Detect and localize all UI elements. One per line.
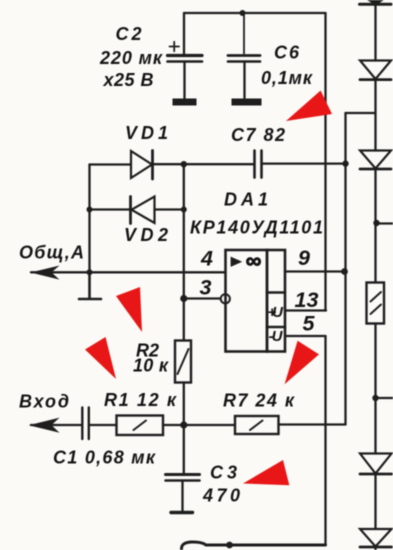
capacitor C7	[255, 151, 262, 178]
wire C6 bottom lead	[243, 63, 245, 99]
wire right diode column top	[374, 4, 376, 61]
node VD2-bus	[181, 207, 187, 213]
red marker arrow 4	[285, 341, 319, 385]
resistor R1	[117, 416, 164, 436]
wire top supply rail	[184, 12, 326, 14]
wire bottom rail left hook end	[181, 542, 206, 550]
node pin3 junction	[180, 295, 187, 302]
diode VD2	[131, 197, 155, 224]
svg-text:VD1: VD1	[125, 123, 168, 143]
red marker arrow 1	[286, 91, 332, 122]
op-amp DA1 body	[226, 250, 286, 352]
node bus-VD1	[181, 161, 187, 167]
svg-text:С6: С6	[274, 43, 300, 63]
svg-text:VD2: VD2	[124, 225, 168, 245]
wire C6 top lead	[243, 13, 245, 54]
svg-text:9: 9	[298, 246, 310, 270]
diode VD right 2	[360, 61, 391, 80]
wire bus to C3	[183, 425, 185, 474]
wire R2 bottom lead	[183, 383, 185, 426]
wire VD2 anode	[155, 208, 184, 210]
capacitor C3	[166, 475, 200, 481]
diode VD right 4	[360, 454, 392, 475]
wire C3 bottom lead	[181, 481, 183, 511]
wire column seg	[374, 474, 376, 529]
wire stub right 2	[376, 397, 393, 399]
svg-text:220 мк: 220 мк	[99, 48, 163, 68]
wire stub right 1	[377, 222, 393, 224]
wire left branch vertical	[88, 165, 90, 273]
wire pin 3	[184, 297, 221, 299]
op-amp U1 inverting input circle	[221, 294, 230, 303]
arrow Obsh,A terminal	[31, 266, 60, 280]
node bottom rail	[226, 542, 233, 549]
svg-text:+U: +U	[268, 304, 285, 321]
svg-text:0,1мк: 0,1мк	[261, 68, 313, 88]
svg-text:3: 3	[200, 276, 212, 300]
ground C3	[171, 511, 193, 514]
wire -U line pin5 down to bottom rail	[324, 336, 326, 545]
svg-text:Общ,А: Общ,А	[19, 243, 84, 263]
wire output line x345	[344, 113, 346, 425]
node VD2-left	[87, 207, 93, 213]
node C7-right	[342, 160, 348, 166]
svg-text:С7 82: С7 82	[231, 125, 285, 145]
capacitor C6	[228, 56, 260, 62]
node common junction	[87, 269, 93, 275]
svg-text:470: 470	[202, 486, 240, 506]
svg-text:13: 13	[295, 288, 319, 312]
red marker arrow 5	[243, 460, 289, 485]
arrow Vhod terminal	[29, 418, 60, 433]
node R1-R7-bus	[180, 421, 187, 428]
wire column bottom	[374, 547, 376, 550]
wire C1 to R1	[90, 424, 117, 426]
svg-text:С1 0,68 мк: С1 0,68 мк	[53, 448, 156, 468]
wire VD1 anode	[90, 163, 131, 165]
wire C7 to right line	[263, 162, 346, 164]
node top-rail / C6 junction	[240, 10, 246, 16]
wire pin 13	[285, 309, 326, 311]
resistor right column	[367, 283, 385, 324]
svg-text:R1 12 к: R1 12 к	[104, 390, 177, 410]
wire pin 9	[285, 270, 345, 272]
svg-text:10 к: 10 к	[133, 356, 169, 376]
wire pin 5	[285, 335, 326, 337]
resistor R7	[235, 416, 279, 434]
wire C2 top lead	[183, 13, 185, 54]
wire C2 bottom lead	[183, 63, 185, 99]
svg-text:-U: -U	[269, 328, 284, 345]
svg-text:5: 5	[303, 312, 316, 336]
svg-text:КР140УД1101: КР140УД1101	[190, 218, 323, 238]
wire output top corner to diode column	[346, 112, 376, 114]
ground C6	[232, 99, 262, 106]
wire VD2 cathode	[90, 208, 131, 210]
diode VD top partial	[360, 0, 392, 5]
op-amp triangle glyph	[232, 258, 241, 266]
wire bottom rail	[206, 544, 326, 547]
svg-text:DA1: DA1	[224, 190, 268, 210]
svg-text:4: 4	[200, 247, 213, 271]
red marker arrow 3	[85, 337, 116, 379]
node pin9-right line	[341, 268, 348, 275]
wire column seg	[374, 324, 376, 454]
resistor R2	[175, 341, 191, 383]
wire input line	[31, 424, 82, 426]
red marker arrow 2	[116, 287, 142, 332]
wire column seg	[374, 80, 376, 151]
ground common tick	[79, 272, 101, 299]
svg-text:R7 24 к: R7 24 к	[223, 391, 295, 411]
wire +U supply drop (top corner to pin13)	[324, 13, 326, 311]
svg-text:∞: ∞	[246, 248, 262, 273]
diode VD right 5	[360, 529, 392, 547]
node column stub 1	[373, 220, 379, 226]
wire R7 right to output line corner	[279, 423, 346, 425]
wire center bus	[183, 164, 185, 340]
wire column seg	[374, 169, 376, 283]
wire R1 to R7	[163, 424, 235, 426]
diode VD right 3	[360, 151, 391, 170]
node column stub 2	[372, 395, 378, 401]
svg-text:х25 В: х25 В	[103, 70, 154, 90]
capacitor C2	[168, 42, 203, 62]
wire Obsh-A to pin 4	[31, 271, 226, 273]
capacitor C1	[82, 408, 89, 440]
ground C2	[173, 99, 197, 106]
wire VD1 cathode to C7	[153, 163, 254, 165]
diode VD1	[131, 151, 153, 180]
